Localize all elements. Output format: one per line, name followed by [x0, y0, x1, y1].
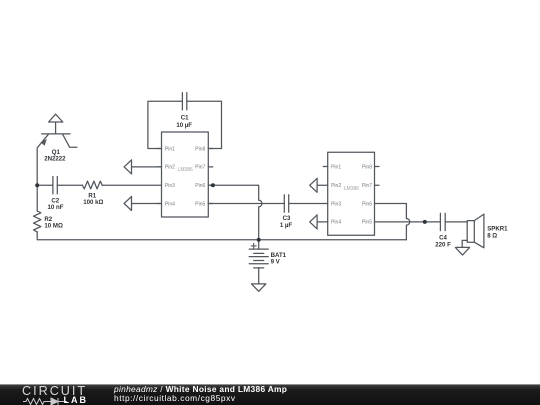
svg-text:1 µF: 1 µF: [280, 222, 293, 229]
svg-text:Pin5: Pin5: [362, 220, 372, 226]
svg-text:LM386: LM386: [344, 186, 360, 192]
svg-text:Pin4: Pin4: [165, 201, 175, 207]
svg-text:Pin7: Pin7: [362, 183, 372, 189]
svg-text:9 V: 9 V: [271, 259, 281, 266]
svg-text:Pin4: Pin4: [331, 220, 341, 226]
svg-text:Pin2: Pin2: [165, 165, 175, 171]
svg-text:Pin8: Pin8: [362, 164, 372, 170]
svg-text:Pin1: Pin1: [331, 164, 341, 170]
svg-text:Pin6: Pin6: [195, 183, 205, 189]
svg-text:Pin6: Pin6: [362, 201, 372, 207]
svg-text:8 Ω: 8 Ω: [487, 232, 497, 239]
svg-text:Pin2: Pin2: [331, 183, 341, 189]
svg-text:10 nF: 10 nF: [48, 204, 64, 211]
svg-text:C1: C1: [181, 115, 189, 122]
svg-text:Pin3: Pin3: [331, 201, 341, 207]
svg-text:Pin3: Pin3: [165, 183, 175, 189]
svg-text:Pin8: Pin8: [195, 146, 205, 152]
svg-text:100 kΩ: 100 kΩ: [83, 199, 103, 206]
svg-text:220 F: 220 F: [435, 241, 451, 248]
svg-text:Pin7: Pin7: [195, 165, 205, 171]
svg-text:2N2222: 2N2222: [44, 156, 66, 163]
svg-text:Pin1: Pin1: [165, 146, 175, 152]
svg-text:10 MΩ: 10 MΩ: [44, 223, 63, 230]
svg-text:LM386: LM386: [178, 167, 194, 173]
svg-text:C3: C3: [283, 215, 291, 222]
svg-text:10 µF: 10 µF: [176, 122, 192, 129]
svg-text:Pin5: Pin5: [195, 201, 205, 207]
